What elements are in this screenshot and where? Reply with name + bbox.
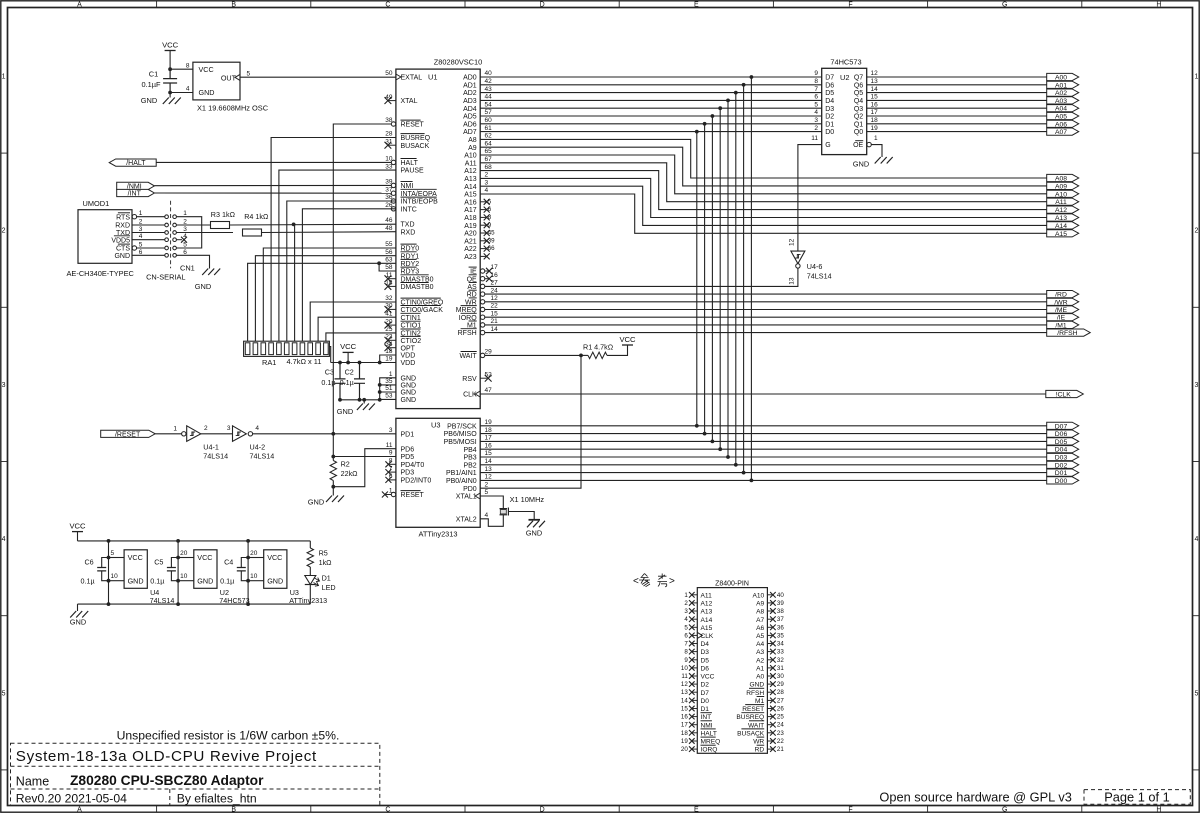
svg-text:25: 25 xyxy=(777,714,784,721)
junction xyxy=(338,398,342,402)
svg-text:PD0: PD0 xyxy=(463,486,477,493)
svg-text:28: 28 xyxy=(777,689,784,696)
svg-text:1: 1 xyxy=(1194,74,1198,81)
svg-text:RA1: RA1 xyxy=(262,358,276,367)
svg-text:65: 65 xyxy=(485,148,493,155)
svg-text:3: 3 xyxy=(389,427,393,434)
wire A9 staircase to flag A09 xyxy=(480,147,1046,186)
crystal X1 10MHz xyxy=(480,496,503,509)
junction TXD/RA1 xyxy=(292,223,296,227)
svg-text:R4 1kΩ: R4 1kΩ xyxy=(244,212,269,221)
wire AD0 vertical drop xyxy=(750,77,752,480)
svg-text:21: 21 xyxy=(491,318,499,325)
svg-text:Unspecified resistor is 1/6W c: Unspecified resistor is 1/6W carbon ±5%. xyxy=(117,729,340,743)
svg-text:14: 14 xyxy=(485,458,493,465)
junction gnd pin xyxy=(246,579,250,583)
svg-text:21: 21 xyxy=(777,746,784,753)
net flag A13 xyxy=(1047,214,1079,221)
frame tick top xyxy=(1081,1,1083,8)
svg-text:2: 2 xyxy=(684,600,688,607)
net flag D05 xyxy=(1047,438,1079,445)
wire Q3 to flag A04 xyxy=(867,107,1047,109)
CN1 contact pair row 1 xyxy=(165,215,169,219)
svg-text:13: 13 xyxy=(789,277,796,285)
svg-text:1: 1 xyxy=(684,592,688,599)
svg-text:31: 31 xyxy=(777,665,784,672)
svg-text:32: 32 xyxy=(777,657,784,664)
svg-text:D4: D4 xyxy=(825,98,834,105)
frame tick left xyxy=(1,615,8,617)
net flag /RD xyxy=(1047,291,1079,298)
svg-text:X1 10MHz: X1 10MHz xyxy=(510,495,545,504)
junction xyxy=(168,91,172,95)
svg-text:GND: GND xyxy=(853,160,869,169)
svg-text:OE: OE xyxy=(853,142,863,149)
junction reset net xyxy=(331,432,335,436)
wire osc OUT to U1 EXTAL xyxy=(240,76,396,78)
svg-text:30: 30 xyxy=(777,673,784,680)
wire M1 to /M1 flag xyxy=(485,324,1047,326)
svg-text:/M1: /M1 xyxy=(1055,322,1067,329)
junction rail xyxy=(176,539,180,543)
svg-text:D4: D4 xyxy=(701,641,710,648)
svg-text:GND: GND xyxy=(401,375,417,382)
svg-text:AD3: AD3 xyxy=(463,98,477,105)
svg-text:D0: D0 xyxy=(825,129,834,136)
svg-text:28: 28 xyxy=(385,131,393,138)
wire OE to GND xyxy=(872,145,883,157)
svg-text:C3: C3 xyxy=(325,368,334,377)
svg-text:0.1µ: 0.1µ xyxy=(220,576,234,585)
wire AD6 vertical drop xyxy=(704,124,706,434)
svg-text:A10: A10 xyxy=(752,592,764,599)
svg-text:D2: D2 xyxy=(701,682,710,689)
svg-text:1: 1 xyxy=(173,426,177,433)
svg-text:11: 11 xyxy=(681,673,688,680)
svg-text:7: 7 xyxy=(814,86,818,93)
svg-text:18: 18 xyxy=(871,117,879,124)
wire RA1-2 pull-up to RDY1 xyxy=(255,256,396,342)
wire AD2 vertical drop xyxy=(735,93,737,465)
svg-text:RESET: RESET xyxy=(401,122,425,129)
CN1 contact pair row 4 xyxy=(165,238,169,242)
junction xyxy=(168,67,172,71)
svg-text:5: 5 xyxy=(1194,690,1198,697)
svg-text:Z80280 CPU-SBCZ80 Adaptor: Z80280 CPU-SBCZ80 Adaptor xyxy=(70,773,264,788)
svg-text:GND: GND xyxy=(401,390,417,397)
svg-text:10: 10 xyxy=(180,573,188,580)
svg-text:GND: GND xyxy=(526,529,542,538)
wire RA1-10 pull-up to CTIN1 xyxy=(318,317,396,341)
svg-text:BUSREQ: BUSREQ xyxy=(401,135,431,142)
oscillator X1 19.6608MHz OSC xyxy=(193,62,240,100)
svg-text:1: 1 xyxy=(874,135,878,142)
svg-text:42: 42 xyxy=(485,78,493,85)
net flag D03 xyxy=(1047,453,1079,460)
wire PB0 to flag D00 xyxy=(480,479,1046,481)
wire RA1-8 pull-up to INTC xyxy=(302,209,396,341)
svg-text:61: 61 xyxy=(485,125,493,132)
net flag A00 xyxy=(1047,73,1079,80)
svg-text:D7: D7 xyxy=(701,690,710,697)
frame tick left xyxy=(1,769,8,771)
junction WAIT/PD0 xyxy=(579,354,583,358)
svg-text:A00: A00 xyxy=(1055,75,1067,82)
svg-text:1: 1 xyxy=(2,74,6,81)
svg-text:27: 27 xyxy=(491,280,499,287)
net flag /NMI xyxy=(117,182,155,189)
svg-text:GND: GND xyxy=(750,682,765,689)
VCC symbol (R1) xyxy=(607,345,628,355)
svg-text:63: 63 xyxy=(385,257,393,264)
svg-text:18: 18 xyxy=(485,427,493,434)
junction vcc pin xyxy=(107,556,111,560)
svg-text:16: 16 xyxy=(485,442,493,449)
svg-text:12: 12 xyxy=(485,474,493,481)
svg-text:Q7: Q7 xyxy=(854,75,863,82)
svg-text:A23: A23 xyxy=(464,254,477,261)
svg-text:38: 38 xyxy=(777,608,784,615)
junction RDY2 xyxy=(377,261,381,265)
svg-text:PAUSE: PAUSE xyxy=(401,168,425,175)
svg-text:A13: A13 xyxy=(1055,215,1067,222)
svg-text:26: 26 xyxy=(777,706,784,713)
svg-text:GND: GND xyxy=(267,576,283,585)
svg-text:22: 22 xyxy=(491,303,499,310)
svg-text:27: 27 xyxy=(777,697,784,704)
svg-text:A15: A15 xyxy=(1055,231,1067,238)
svg-text:15: 15 xyxy=(871,94,879,101)
junction rail xyxy=(176,602,180,606)
svg-text:A15: A15 xyxy=(464,192,477,199)
svg-text:WAIT: WAIT xyxy=(748,722,764,729)
svg-text:/ME: /ME xyxy=(1055,307,1068,314)
svg-text:39: 39 xyxy=(488,237,495,244)
svg-text:G: G xyxy=(825,142,830,149)
svg-text:20: 20 xyxy=(681,746,688,753)
svg-text:3: 3 xyxy=(227,425,231,432)
resistor array RA1 4.7k x 11 xyxy=(244,341,330,356)
svg-text:6: 6 xyxy=(814,94,818,101)
wire WAIT net down to PD0 xyxy=(480,355,581,488)
wire GND to osc pin 4 xyxy=(170,92,193,94)
svg-text:EXTAL: EXTAL xyxy=(401,75,423,82)
wire MREQ to /ME flag xyxy=(485,309,1047,311)
junction GND xyxy=(378,383,382,387)
svg-text:By efialtes_htn: By efialtes_htn xyxy=(177,791,257,805)
wire VDD18 jog xyxy=(380,355,396,363)
svg-text:46: 46 xyxy=(385,217,393,224)
svg-text:D1: D1 xyxy=(825,121,834,128)
frame tick right xyxy=(1193,461,1200,463)
wire CN1-2 to R3 xyxy=(176,224,210,226)
power block U3 ATTiny2313 xyxy=(264,550,287,589)
svg-text:HALT: HALT xyxy=(401,160,419,167)
svg-text:8: 8 xyxy=(684,649,688,656)
frame tick top xyxy=(927,1,929,8)
svg-text:A14: A14 xyxy=(1055,223,1067,230)
frame tick right xyxy=(1193,152,1200,154)
junction vcc pin xyxy=(176,556,180,560)
svg-text:VCC: VCC xyxy=(199,65,214,74)
svg-text:40: 40 xyxy=(485,70,493,77)
svg-text:RXD: RXD xyxy=(401,229,416,236)
svg-text:A18: A18 xyxy=(464,215,477,222)
wire IORQ to /IE flag xyxy=(485,316,1047,318)
svg-text:GND: GND xyxy=(128,576,144,585)
svg-text:A3: A3 xyxy=(756,649,764,656)
footer page box xyxy=(1084,790,1190,805)
svg-text:U1: U1 xyxy=(428,73,437,82)
svg-text:VDD5: VDD5 xyxy=(111,237,130,244)
svg-text:H: H xyxy=(1156,1,1161,8)
svg-text:A12: A12 xyxy=(1055,207,1067,214)
svg-text:16: 16 xyxy=(491,272,499,279)
svg-text:D06: D06 xyxy=(1055,431,1068,438)
svg-text:/INT: /INT xyxy=(128,191,142,198)
CN1 dashed separator xyxy=(170,201,172,268)
svg-text:5: 5 xyxy=(247,70,251,77)
wire RA1-9 pull-up to CTIN0 xyxy=(310,302,396,341)
svg-text:Q6: Q6 xyxy=(854,82,863,89)
frame tick bottom xyxy=(618,806,620,813)
net flag D04 xyxy=(1047,446,1079,453)
svg-text:VCC: VCC xyxy=(619,335,636,344)
svg-text:PB7/SCK: PB7/SCK xyxy=(447,423,477,430)
wire RA1-6 pull-up to INTB xyxy=(287,201,396,341)
svg-text:9: 9 xyxy=(488,222,492,229)
wire /INT to U1 xyxy=(154,192,391,194)
svg-text:C: C xyxy=(385,807,390,813)
svg-text:B: B xyxy=(231,807,236,813)
svg-text:17: 17 xyxy=(871,109,879,116)
ground (CN1) xyxy=(202,269,220,276)
svg-text:6: 6 xyxy=(488,206,492,213)
svg-text:Z8400-PIN: Z8400-PIN xyxy=(715,581,749,588)
svg-text:5: 5 xyxy=(488,198,492,205)
svg-text:DMASTB0: DMASTB0 xyxy=(401,284,434,291)
svg-text:AD6: AD6 xyxy=(463,121,477,128)
svg-text:53: 53 xyxy=(385,393,393,400)
svg-text:A5: A5 xyxy=(756,633,764,640)
svg-text:4: 4 xyxy=(186,86,190,93)
svg-text:RFSH: RFSH xyxy=(458,330,477,337)
svg-text:A9: A9 xyxy=(468,145,477,152)
svg-text:A1: A1 xyxy=(756,666,764,673)
junction AD6 xyxy=(703,122,707,126)
junction xyxy=(362,398,366,402)
svg-text:CTS: CTS xyxy=(116,246,130,253)
svg-text:H: H xyxy=(1156,807,1161,813)
net flag A02 xyxy=(1047,89,1079,96)
net flag A01 xyxy=(1047,81,1079,88)
frame tick top xyxy=(618,1,620,8)
svg-text:A20: A20 xyxy=(464,231,477,238)
svg-text:D02: D02 xyxy=(1055,462,1068,469)
svg-text:AD4: AD4 xyxy=(463,106,477,113)
net flag D00 xyxy=(1047,477,1079,484)
svg-text:/WR: /WR xyxy=(1054,299,1067,306)
wire RD to /RD flag xyxy=(485,293,1047,295)
svg-text:15: 15 xyxy=(681,706,688,713)
wire U2 G to U4-6 xyxy=(798,145,822,252)
svg-text:4: 4 xyxy=(2,536,6,543)
svg-text:4: 4 xyxy=(485,512,489,519)
svg-text:2: 2 xyxy=(204,425,208,432)
wire A14 staircase to flag A14 xyxy=(480,186,1046,225)
svg-text:G: G xyxy=(1002,807,1007,813)
wire PB6 to flag D06 xyxy=(480,433,1046,435)
svg-text:OUT: OUT xyxy=(221,73,237,82)
svg-text:Rev0.20 2021-05-04: Rev0.20 2021-05-04 xyxy=(16,791,127,805)
wire U1 /RESET down xyxy=(333,124,391,434)
svg-text:A11: A11 xyxy=(701,592,713,599)
svg-text:Name: Name xyxy=(16,775,49,789)
svg-text:A: A xyxy=(77,1,82,8)
svg-text:GND: GND xyxy=(195,282,211,291)
wire AD5 vertical drop xyxy=(711,116,713,441)
svg-text:C4: C4 xyxy=(224,558,233,567)
junction AD0 xyxy=(750,75,754,79)
svg-text:29: 29 xyxy=(777,681,784,688)
svg-text:VCC: VCC xyxy=(128,553,143,562)
svg-text:VCC: VCC xyxy=(267,553,282,562)
capacitor C4 0.1u xyxy=(241,558,248,564)
CN1 contact pair row 5 xyxy=(165,246,169,250)
svg-text:Q0: Q0 xyxy=(854,129,863,136)
frame tick top xyxy=(772,1,774,8)
no-connect CN1-4 xyxy=(176,239,182,241)
wire VCC to osc pin 8 xyxy=(170,68,193,70)
svg-text:18: 18 xyxy=(385,348,393,355)
wire VDD19 xyxy=(365,362,396,364)
svg-text:PD5: PD5 xyxy=(401,454,415,461)
svg-text:PB4: PB4 xyxy=(463,447,476,454)
net flag A04 xyxy=(1047,105,1079,112)
svg-text:D: D xyxy=(540,1,545,8)
svg-text:F: F xyxy=(848,1,852,8)
net flag !CLK xyxy=(1046,390,1084,397)
svg-text:A07: A07 xyxy=(1055,129,1067,136)
svg-text:14: 14 xyxy=(681,697,688,704)
frame tick left xyxy=(1,306,8,308)
svg-text:39: 39 xyxy=(777,600,784,607)
svg-text:35: 35 xyxy=(385,378,393,385)
svg-text:56: 56 xyxy=(385,249,393,256)
svg-text:GND: GND xyxy=(401,383,417,390)
svg-text:A17: A17 xyxy=(464,207,477,214)
junction VCC riser xyxy=(346,361,350,365)
wire A10 staircase to flag A10 xyxy=(480,155,1046,194)
wire U4-6 to U1 AS xyxy=(485,268,798,286)
svg-text:12: 12 xyxy=(789,238,796,246)
capacitor C3 0.1u xyxy=(335,363,346,400)
svg-text:D3: D3 xyxy=(825,106,834,113)
net flag /IE xyxy=(1047,314,1079,321)
GND pins chain xyxy=(380,378,396,400)
frame tick top xyxy=(464,1,466,8)
resistor R5 1k xyxy=(309,541,311,548)
title divider 1 xyxy=(11,765,380,767)
junction AD3 xyxy=(726,99,730,103)
svg-text:TXD: TXD xyxy=(401,222,415,229)
svg-text:A14: A14 xyxy=(701,617,713,624)
svg-text:System-18-13a OLD-CPU Revive P: System-18-13a OLD-CPU Revive Project xyxy=(16,748,317,765)
net flag /RESET xyxy=(101,430,156,437)
frame tick top xyxy=(156,1,158,8)
ground (osc C1) xyxy=(169,93,171,98)
svg-text:B: B xyxy=(231,1,236,8)
svg-text:R3 1kΩ: R3 1kΩ xyxy=(211,210,236,219)
svg-text:0.1µ: 0.1µ xyxy=(150,576,164,585)
svg-text:GND: GND xyxy=(70,618,86,627)
frame tick top xyxy=(310,1,312,8)
svg-text:43: 43 xyxy=(485,86,493,93)
junction D00 row xyxy=(695,424,699,428)
wire AD3 xyxy=(480,99,822,101)
svg-text:A11: A11 xyxy=(465,160,477,167)
svg-text:A06: A06 xyxy=(1055,121,1067,128)
svg-text:PD3: PD3 xyxy=(401,470,415,477)
svg-text:A: A xyxy=(77,807,82,813)
net flag D06 xyxy=(1047,430,1079,437)
svg-text:C: C xyxy=(385,1,390,8)
svg-text:C1: C1 xyxy=(149,70,158,79)
svg-text:A10: A10 xyxy=(1055,191,1067,198)
svg-text:1: 1 xyxy=(389,371,393,378)
svg-text:A2: A2 xyxy=(756,657,764,664)
junction D02 row xyxy=(711,440,715,444)
wire A15 staircase to flag A15 xyxy=(480,194,1046,233)
wire RA1-7 pull-up to TXD-net xyxy=(294,224,296,341)
svg-text:PB6/MISO: PB6/MISO xyxy=(444,431,478,438)
svg-text:U4-6: U4-6 xyxy=(807,262,823,271)
svg-text:17: 17 xyxy=(485,435,493,442)
junction xyxy=(338,361,342,365)
frame tick bottom xyxy=(1081,806,1083,813)
svg-text:PB2: PB2 xyxy=(463,462,476,469)
svg-text:VCC: VCC xyxy=(340,342,357,351)
svg-text:GND: GND xyxy=(114,253,130,260)
capacitor C5 0.1u xyxy=(171,558,178,564)
wire RA1-11 pull-up to CTIN2 xyxy=(326,333,396,341)
svg-text:40: 40 xyxy=(777,592,784,599)
net flag A10 xyxy=(1047,190,1079,197)
ground (U1 power) xyxy=(363,400,365,404)
svg-text:OPT: OPT xyxy=(401,345,416,352)
ground (crystal) xyxy=(508,512,534,520)
wire AD2 xyxy=(480,92,822,94)
svg-text:XTAL2: XTAL2 xyxy=(456,516,477,523)
svg-text:HALT: HALT xyxy=(701,730,717,737)
svg-text:AD5: AD5 xyxy=(463,114,477,121)
net flag /M1 xyxy=(1047,321,1079,328)
svg-text:14: 14 xyxy=(491,326,499,333)
svg-text:D7: D7 xyxy=(825,75,834,82)
junction rail xyxy=(246,539,250,543)
svg-text:D5: D5 xyxy=(825,90,834,97)
svg-text:CLK: CLK xyxy=(463,392,477,399)
wire AD3 vertical drop xyxy=(727,100,729,457)
wire RFSH to /RFSH flag xyxy=(485,332,1047,334)
net flag A06 xyxy=(1047,120,1079,127)
inverter U4-6 74LS14 xyxy=(791,251,805,264)
svg-text:74HC573: 74HC573 xyxy=(219,596,249,605)
frame tick bottom xyxy=(927,806,929,813)
wire CN1-6 to GND xyxy=(176,255,209,268)
svg-text:/RESET: /RESET xyxy=(115,431,141,438)
svg-text:A13: A13 xyxy=(464,176,477,183)
